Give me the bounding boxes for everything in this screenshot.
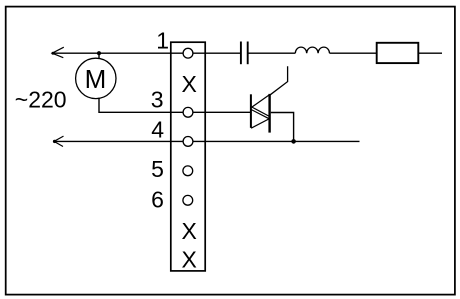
svg-text:1: 1 bbox=[156, 27, 169, 53]
wire: stub from node A down to motor bbox=[98, 53, 100, 59]
svg-text:X: X bbox=[182, 247, 197, 273]
arrow on net 1 (left, to mains) bbox=[52, 47, 64, 58]
triac VS1 right bar bbox=[268, 94, 270, 133]
wire: net 4 from arrow through terminal 4 to right end bbox=[54, 140, 360, 142]
svg-text:4: 4 bbox=[151, 116, 164, 142]
wire: inductor to resistor bbox=[330, 52, 377, 54]
triac VS1 lower triangle bbox=[251, 110, 269, 129]
arrow on net 4 (left, to mains) bbox=[54, 136, 64, 146]
terminal 3 circle bbox=[183, 107, 193, 117]
triac VS1 gate lead bbox=[270, 66, 287, 95]
terminal 5 circle bbox=[183, 166, 193, 176]
capacitor C1 plates bbox=[240, 42, 242, 65]
svg-text:5: 5 bbox=[151, 156, 164, 182]
svg-text:X: X bbox=[182, 218, 197, 244]
triac VS1 upper triangle bbox=[252, 95, 270, 117]
wire: resistor to right end bbox=[418, 52, 442, 54]
wire: capacitor to inductor bbox=[248, 52, 296, 54]
terminal block X bbox=[171, 42, 205, 271]
terminal 4 circle bbox=[183, 137, 193, 147]
svg-text:3: 3 bbox=[151, 86, 164, 112]
node A junction dot on net 1 bbox=[97, 51, 101, 55]
triac VS1 left bar bbox=[250, 94, 252, 128]
resistor R1 bbox=[377, 43, 419, 63]
svg-text:6: 6 bbox=[151, 186, 164, 212]
svg-text:~220: ~220 bbox=[15, 87, 67, 113]
wire: motor bottom lead down then to net 3 bbox=[99, 98, 250, 113]
inductor L1 bbox=[295, 47, 329, 53]
node B junction dot on net 4 bbox=[291, 139, 296, 144]
svg-text:X: X bbox=[182, 71, 197, 97]
wire: net 1 from arrow to capacitor, through terminal 1 bbox=[52, 52, 240, 54]
terminal 1 circle bbox=[183, 48, 193, 58]
terminal 6 circle bbox=[183, 195, 193, 205]
wire: triac right to net 4 bbox=[271, 113, 294, 142]
motor M bbox=[76, 58, 116, 98]
svg-text:M: M bbox=[85, 64, 107, 94]
